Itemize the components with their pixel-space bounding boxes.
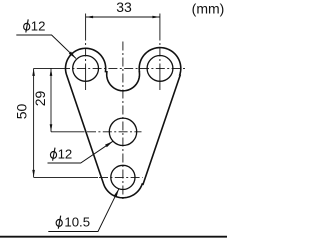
svg-text:29: 29 bbox=[32, 91, 48, 107]
svg-text:12: 12 bbox=[58, 147, 73, 162]
svg-text:50: 50 bbox=[14, 104, 30, 120]
svg-text:(mm): (mm) bbox=[192, 1, 225, 17]
svg-text:33: 33 bbox=[116, 0, 132, 15]
svg-text:10.5: 10.5 bbox=[64, 215, 90, 230]
svg-text:12: 12 bbox=[31, 18, 46, 33]
